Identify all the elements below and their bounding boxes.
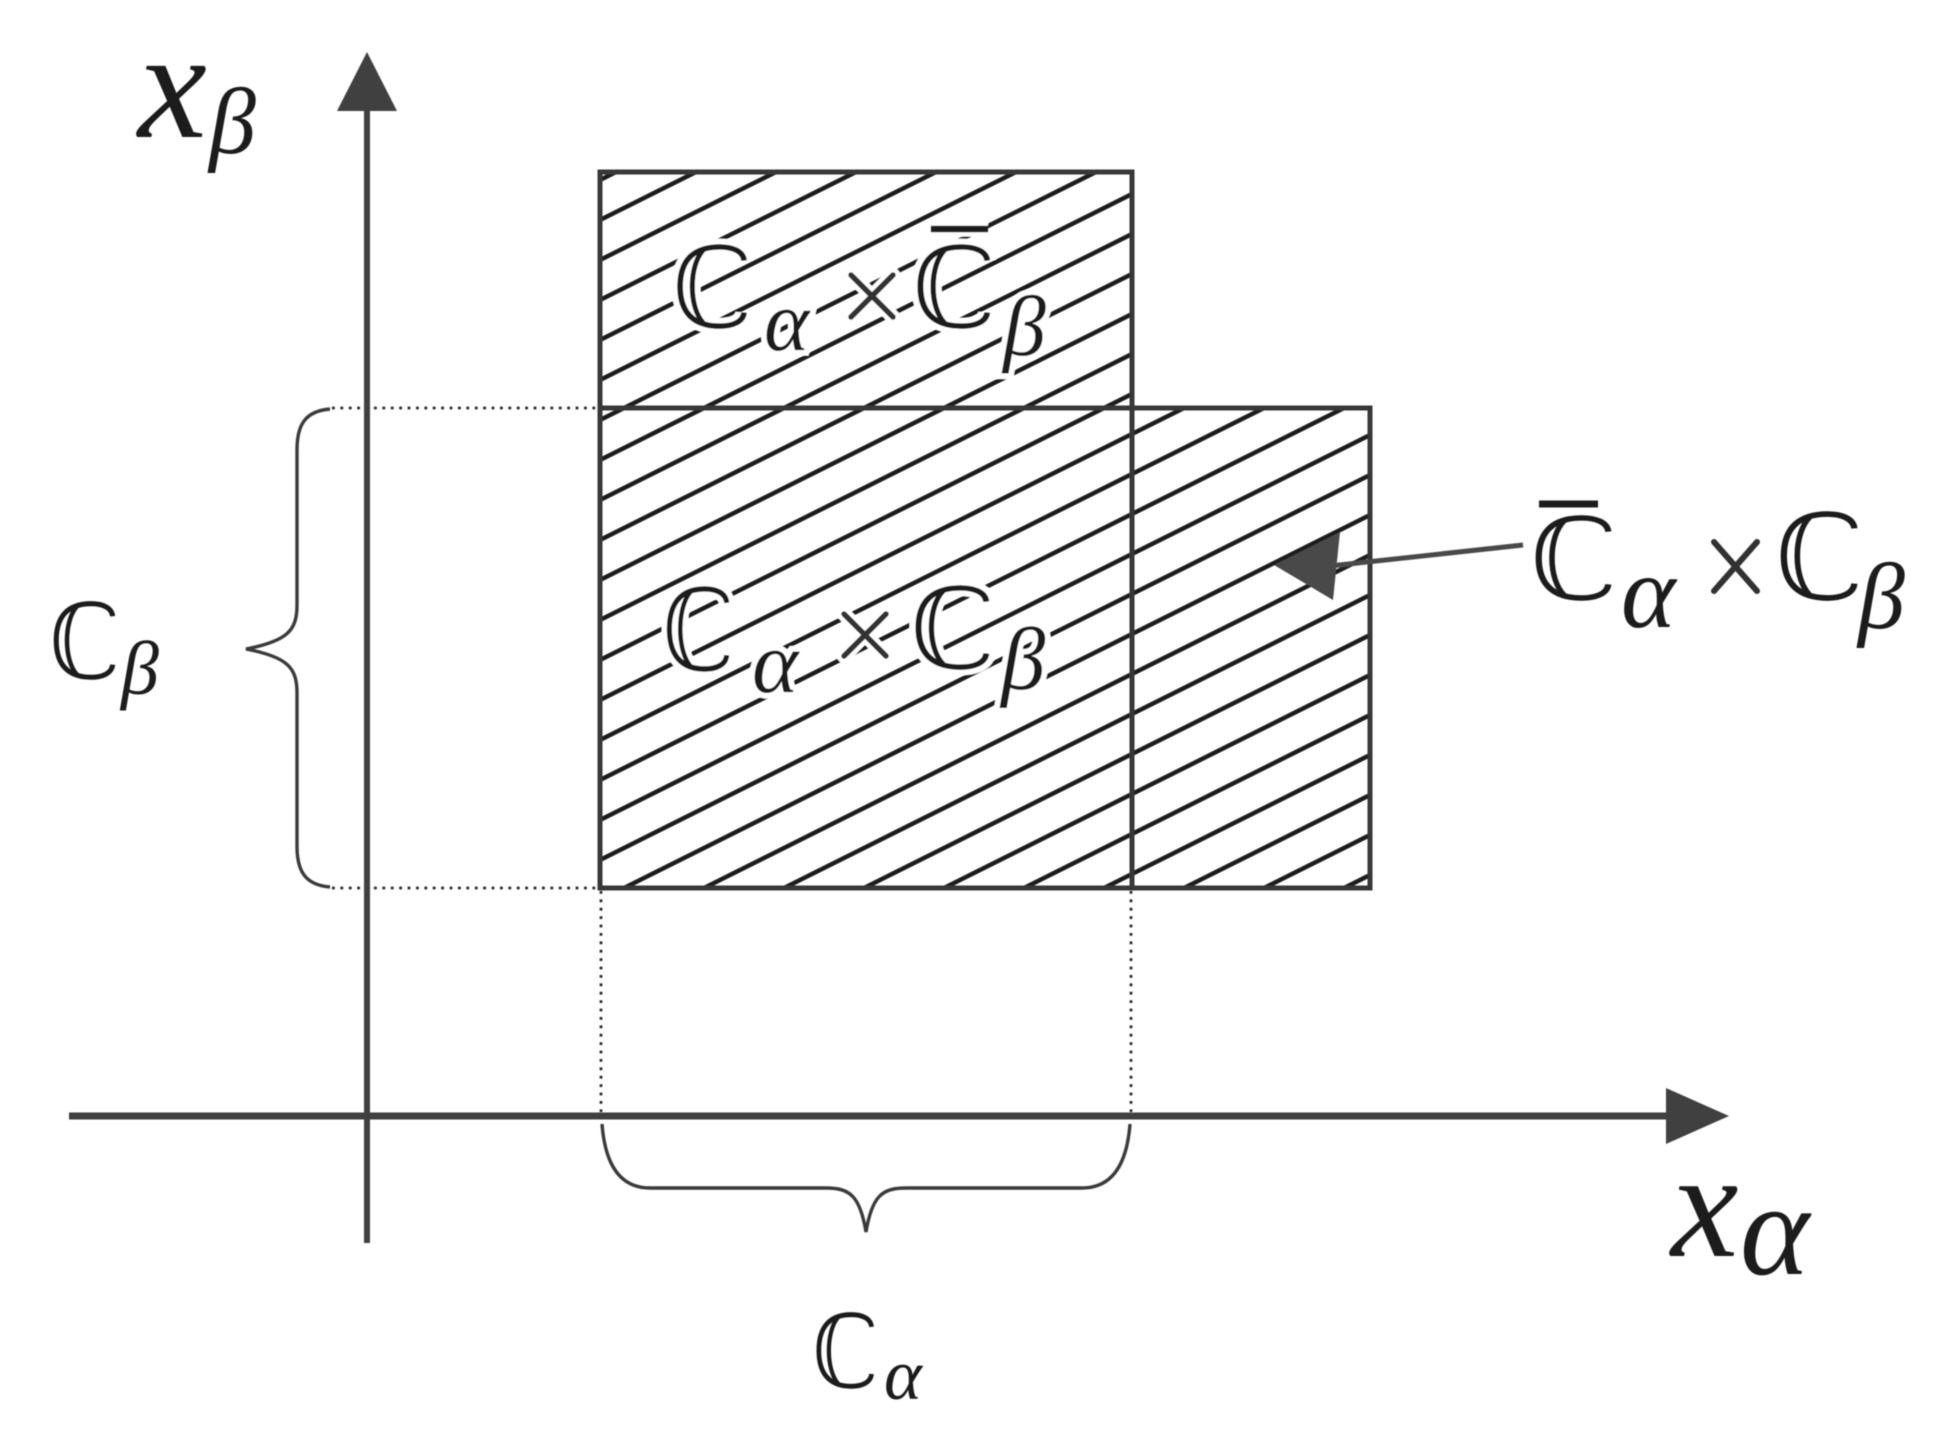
svg-text:β: β [207,70,256,174]
dotted extension lines [332,408,1131,1112]
divider line [1130,408,1135,888]
svg-text:β: β [119,627,159,711]
label C_beta (left) [56,604,112,678]
hatched rect big: C_alpha x C_beta plus right part [600,408,1370,888]
x axis [69,1113,1670,1120]
label C_alpha (bottom) [819,1315,872,1387]
svg-text:β: β [999,611,1046,709]
y axis [364,108,370,1243]
annotation arrow [1330,545,1523,566]
svg-text:α: α [752,615,800,712]
left curly brace C_beta [246,409,330,887]
bottom curly brace C_alpha [602,1124,1130,1232]
svg-text:x: x [136,0,207,171]
svg-text:α: α [1621,535,1678,650]
svg-text:β: β [1001,278,1046,374]
svg-text:α: α [884,1335,923,1415]
middle label C_a x C_b [669,589,726,669]
top label C_a x barC_b [680,247,744,326]
svg-text:x: x [1669,1121,1738,1289]
right label barC_a x C_b [1539,501,1598,508]
svg-text:α: α [1740,1156,1812,1303]
hatched rect top: C_alpha x not-C_beta [600,172,1132,408]
svg-text:α: α [764,273,811,369]
svg-text:β: β [1856,545,1905,649]
